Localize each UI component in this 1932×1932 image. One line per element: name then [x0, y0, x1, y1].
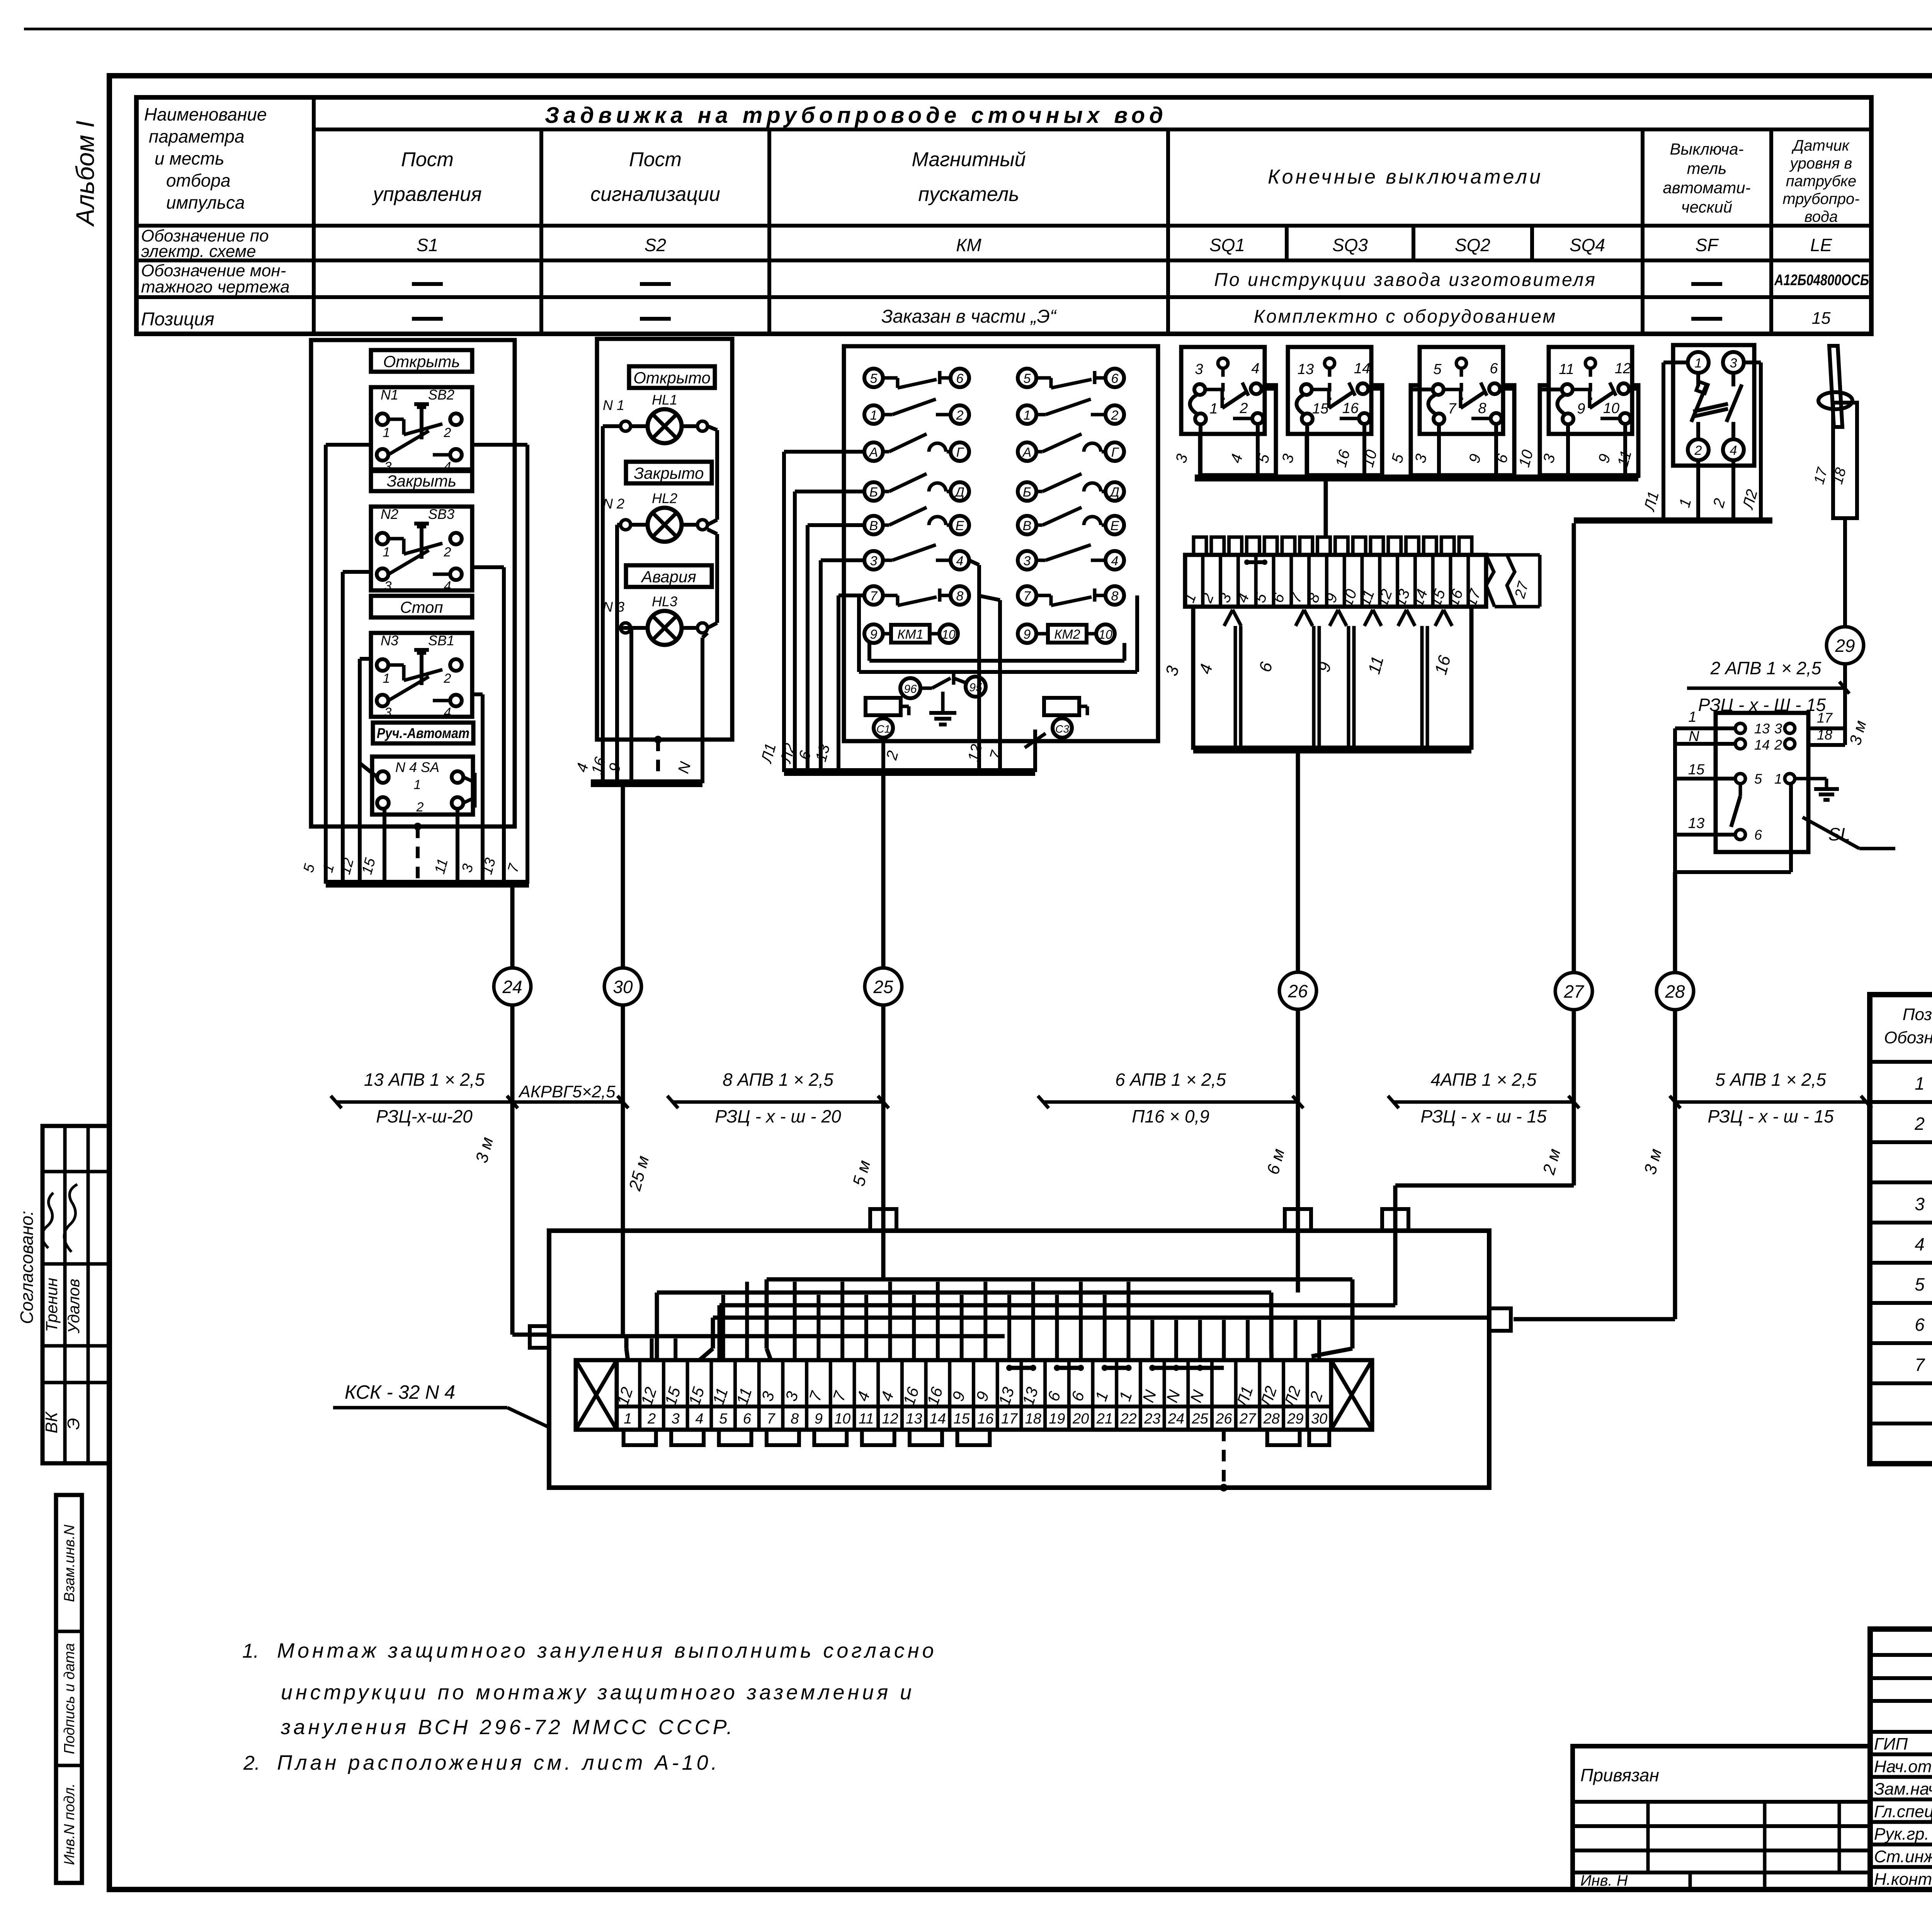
svg-text:1: 1 [1915, 1073, 1925, 1094]
control post enclosure [311, 340, 515, 827]
svg-text:5: 5 [719, 1411, 728, 1427]
svg-text:3: 3 [1024, 554, 1031, 568]
svg-text:12: 12 [1615, 361, 1631, 377]
svg-text:5: 5 [1024, 371, 1031, 386]
SL wire label 18 [1817, 727, 1832, 743]
svg-text:3: 3 [1730, 356, 1737, 371]
limit switch shell SQ2 [1411, 385, 1514, 475]
svg-text:Авария: Авария [640, 568, 696, 586]
LE mounting designation [1774, 272, 1869, 289]
limit switch wire SQ2-2 [1494, 424, 1498, 478]
starter contact В-Е [864, 507, 969, 534]
svg-text:30: 30 [1311, 1411, 1327, 1427]
starter coil circuit 9-KM1-10 [864, 624, 958, 643]
svg-text:10: 10 [1099, 628, 1112, 641]
wire SF to node 27 [1572, 523, 1576, 973]
P16 cable bus [1193, 747, 1471, 753]
svg-text:13: 13 [1754, 721, 1770, 736]
wire label 5 [300, 862, 318, 874]
svg-text:Конечные выключатели: Конечные выключатели [1268, 166, 1543, 188]
wire label 7 [986, 748, 1005, 762]
node 27 [1555, 973, 1592, 1010]
wire 6 starter [808, 525, 864, 772]
svg-text:Датчик: Датчик [1791, 137, 1850, 154]
svg-text:Н.контр.: Н.контр. [1874, 1870, 1932, 1889]
name Trenin [43, 1278, 61, 1332]
svg-text:7: 7 [1448, 401, 1457, 417]
wire from SQ bus to terminal strip [1324, 481, 1328, 537]
svg-text:РЗЦ - х - ш - 15: РЗЦ - х - ш - 15 [1708, 1106, 1834, 1126]
wire label 4 [573, 761, 592, 774]
dash SF mounting [1691, 282, 1722, 286]
row label: Позиция [141, 309, 214, 330]
paper outer border top line [24, 28, 1932, 31]
wire label 4 [1227, 452, 1246, 465]
svg-text:8 АПВ 1 × 2,5: 8 АПВ 1 × 2,5 [723, 1070, 833, 1090]
SL terminal 1 [1774, 771, 1795, 787]
svg-text:2 АПВ 1 × 2,5: 2 АПВ 1 × 2,5 [1710, 658, 1821, 678]
cable label 13APV [331, 1070, 518, 1126]
svg-text:А: А [869, 445, 878, 460]
SF breaker contacts [1691, 373, 1742, 439]
svg-text:1: 1 [1688, 709, 1696, 725]
svg-text:Альбом I: Альбом I [71, 121, 99, 227]
starter contact 5-6 [1018, 369, 1124, 388]
parts row 5 [1915, 1234, 1932, 1254]
svg-text:трубопро-: трубопро- [1782, 190, 1859, 207]
svg-text:24: 24 [1168, 1411, 1184, 1427]
wire SL to node 28 [1673, 872, 1677, 973]
svg-text:электр. схеме: электр. схеме [141, 242, 256, 261]
svg-text:2: 2 [956, 408, 964, 423]
svg-text:Гл.спец.: Гл.спец. [1874, 1802, 1932, 1821]
svg-text:1: 1 [870, 408, 878, 423]
svg-text:патрубке: патрубке [1786, 173, 1857, 190]
svg-text:16: 16 [1342, 400, 1359, 417]
svg-text:1: 1 [383, 671, 390, 686]
KCK entry bump wire26 [1285, 1209, 1311, 1231]
coil terminal C1 [874, 718, 893, 738]
svg-text:S2: S2 [645, 235, 666, 255]
label box Стоп [371, 596, 472, 617]
svg-text:4: 4 [695, 1411, 703, 1427]
LE position 15 [1812, 309, 1831, 328]
designation SF [1696, 235, 1719, 255]
SL ground symbol [1795, 779, 1839, 800]
svg-text:8: 8 [1111, 589, 1119, 604]
svg-text:5: 5 [870, 371, 878, 386]
wire label Л2 [777, 742, 799, 765]
wire label 1 SF [1676, 497, 1694, 509]
SL wire label 15 [1688, 762, 1705, 778]
svg-text:Тренин: Тренин [43, 1278, 61, 1332]
magnetic starter enclosure [844, 346, 1158, 741]
svg-text:Ст.инж.: Ст.инж. [1874, 1847, 1932, 1866]
svg-text:22: 22 [1120, 1411, 1136, 1427]
svg-text:ческий: ческий [1681, 198, 1732, 216]
svg-text:2.: 2. [243, 1752, 260, 1774]
SF cable bus [1574, 517, 1772, 524]
svg-text:уровня в: уровня в [1789, 155, 1852, 172]
svg-text:20: 20 [1072, 1411, 1089, 1427]
svg-text:9: 9 [815, 1411, 823, 1427]
dash S2 position [640, 317, 671, 321]
auxiliary contact 96-95 [900, 672, 986, 698]
svg-text:3: 3 [870, 554, 878, 568]
wire label 3 [1412, 452, 1430, 465]
length label 5m [849, 1158, 874, 1188]
svg-text:8: 8 [1478, 400, 1486, 417]
KCK terminal wire numbers [613, 1384, 1326, 1410]
svg-text:С1: С1 [876, 723, 890, 735]
svg-text:По инструкции завода изгото: По инструкции завода изготовителя [1214, 270, 1597, 290]
svg-text:сигнализации: сигнализации [590, 183, 720, 206]
starter coil circuit 9-KM2-10 [1018, 624, 1115, 643]
svg-text:4АПВ 1 × 2,5: 4АПВ 1 × 2,5 [1431, 1070, 1537, 1090]
P16 group label 9 [1314, 660, 1335, 674]
P16 group label 4 [1196, 662, 1216, 676]
SL terminal 3 [1774, 721, 1795, 736]
KCK wire26 internal [1296, 1231, 1300, 1293]
designation SQ3 [1332, 235, 1368, 255]
label box Руч.-Автомат [373, 723, 473, 743]
P16 group label 11 [1364, 654, 1387, 676]
wire label 7 [505, 861, 523, 874]
wire label N [675, 760, 694, 775]
P16 group label 3 [1162, 664, 1183, 678]
KCK wire27 internal [1393, 1231, 1398, 1305]
side label Vzam inv N [61, 1524, 78, 1602]
label box Закрыть [371, 469, 472, 491]
wire 1 from SB3 pin3 [343, 572, 371, 884]
svg-text:28: 28 [1263, 1411, 1280, 1427]
svg-text:SQ1: SQ1 [1209, 235, 1245, 255]
parts row 6 [1915, 1274, 1932, 1294]
svg-text:6 АПВ 1 × 2,5: 6 АПВ 1 × 2,5 [1115, 1070, 1226, 1090]
wire 16 block2 [617, 525, 621, 783]
svg-text:2: 2 [416, 800, 424, 815]
wire 13 starter [821, 560, 864, 772]
parts table grid [1870, 995, 1932, 1464]
wire label 15 [359, 856, 379, 876]
svg-text:5: 5 [1433, 361, 1442, 378]
svg-text:Пост: Пост [401, 148, 454, 171]
wire label Л1 [758, 742, 779, 765]
SL terminal 6 [1735, 827, 1762, 843]
wire node 25 to KCK [881, 1005, 886, 1231]
node 24 [494, 968, 531, 1005]
node 29 [1827, 627, 1864, 664]
svg-text:HL3: HL3 [652, 594, 677, 609]
dash SF position [1691, 317, 1722, 321]
wire label 11 [432, 857, 451, 876]
svg-text:HL1: HL1 [652, 392, 677, 408]
svg-text:Позиция: Позиция [141, 309, 214, 330]
svg-text:РЗЦ-х-ш-20: РЗЦ-х-ш-20 [376, 1106, 473, 1126]
svg-text:зануления ВСН 296-72 ММСС СС: зануления ВСН 296-72 ММСС СССР. [281, 1716, 735, 1739]
svg-text:Нач.отд.: Нач.отд. [1874, 1757, 1932, 1776]
svg-text:6: 6 [1915, 1315, 1925, 1335]
wire 13 from SB3 pin4 [472, 567, 504, 884]
inv number label [1580, 1872, 1628, 1889]
limit switch SQ3 [1288, 347, 1371, 434]
svg-text:План расположения см. лист: План расположения см. лист А-10. [277, 1751, 720, 1774]
svg-text:N 1: N 1 [603, 397, 624, 413]
svg-text:27: 27 [1239, 1411, 1257, 1427]
wire label 3 [1540, 452, 1558, 465]
node 26 [1279, 972, 1316, 1009]
push button SB1 [371, 633, 472, 720]
svg-text:N3: N3 [381, 633, 398, 648]
header col1 label [144, 104, 267, 213]
svg-text:3: 3 [384, 705, 392, 720]
svg-text:11: 11 [1559, 361, 1574, 378]
starter contact В-Е [1018, 507, 1124, 534]
svg-text:Б: Б [869, 485, 878, 500]
svg-text:1: 1 [383, 545, 390, 560]
svg-text:ГИП: ГИП [1874, 1735, 1908, 1753]
label box Открыто [629, 366, 715, 388]
svg-text:1: 1 [1774, 771, 1782, 787]
designation SQ4 [1570, 235, 1605, 255]
svg-text:13: 13 [1688, 815, 1704, 832]
KCK entry bump right [1489, 1308, 1511, 1331]
designation KM [956, 235, 981, 255]
svg-text:отбора: отбора [166, 170, 231, 190]
svg-text:тажного чертежа: тажного чертежа [141, 277, 290, 296]
wire label 6 [796, 748, 814, 762]
privyazan table [1573, 1746, 1870, 1889]
svg-text:Открыто: Открыто [633, 369, 711, 387]
starter internal link row8 [869, 643, 1124, 661]
svg-text:Инв.N подл.: Инв.N подл. [61, 1783, 78, 1865]
SF wire 1 [1696, 460, 1700, 520]
svg-text:10: 10 [1603, 400, 1619, 417]
svg-text:1: 1 [414, 777, 421, 792]
svg-text:9: 9 [1024, 627, 1031, 642]
SL terminal 5 [1735, 771, 1762, 787]
svg-text:4: 4 [444, 705, 451, 720]
wire label 10 [1359, 448, 1380, 469]
svg-text:18: 18 [1025, 1411, 1041, 1427]
svg-text:2: 2 [1239, 400, 1248, 417]
limit switch SQ4 [1549, 347, 1632, 434]
wire label 12 [964, 742, 985, 763]
KCK jumper 23-26 [1149, 1365, 1224, 1371]
svg-text:25: 25 [873, 977, 893, 997]
wire 12 from SB1 pin1 [360, 659, 377, 884]
svg-text:N 4 SA: N 4 SA [395, 759, 439, 775]
svg-text:пускатель: пускатель [918, 183, 1019, 206]
mounting note: По инструкции завода изготовителя [1214, 270, 1597, 290]
svg-text:Заказан в части „Э“: Заказан в части „Э“ [881, 306, 1057, 327]
svg-text:В: В [869, 519, 878, 533]
starter contact 1-2 [864, 399, 969, 424]
label E [64, 1418, 83, 1430]
designation LE [1810, 235, 1833, 255]
LE label 17 [1811, 465, 1831, 486]
svg-text:КМ2: КМ2 [1054, 627, 1080, 642]
wire label 9 [1466, 452, 1484, 465]
svg-text:2: 2 [1914, 1114, 1925, 1134]
KCK terminal numbers [624, 1411, 1327, 1427]
starter contact 7-8 [864, 586, 969, 605]
SL bottom wire [1675, 784, 1791, 872]
starter contact А-Г [1018, 434, 1124, 461]
KCK harness bus B [657, 1293, 1272, 1360]
wire label 2 SF [1710, 497, 1729, 510]
limit switch wire SQ2-1 [1437, 424, 1441, 478]
P16 lower group cells [1193, 607, 1471, 748]
limit switch shell SQ3 [1307, 385, 1382, 475]
SL wire label 13 [1688, 815, 1704, 832]
title row Н.контр. Янбиндер [1874, 1870, 1932, 1889]
starter contact 3-4 [1018, 545, 1124, 570]
svg-text:N 3: N 3 [603, 599, 624, 615]
wire label Л1 SF [1641, 490, 1662, 514]
terminal box SL [1716, 713, 1808, 852]
limit switch cable bus [1195, 474, 1638, 481]
node 25 [865, 968, 902, 1005]
starter contact Б-Д [1018, 474, 1124, 501]
KCK label leader [333, 1381, 548, 1427]
wire 7 starter [978, 595, 1000, 772]
svg-text:12: 12 [882, 1411, 898, 1427]
P16 group label 16 [1431, 653, 1454, 677]
svg-text:14: 14 [1754, 737, 1770, 753]
starter contact А-Г [864, 434, 969, 461]
row label: Обозначение монтажного чертежа [141, 261, 290, 296]
cable label AKRVG [507, 1082, 628, 1108]
parts row 1 [1915, 1073, 1932, 1094]
svg-text:23: 23 [1144, 1411, 1160, 1427]
title row Гл.спец. Паз [1874, 1802, 1932, 1821]
svg-text:Магнитный: Магнитный [912, 148, 1026, 171]
svg-text:1: 1 [1695, 356, 1702, 371]
name Udalov [65, 1279, 83, 1333]
SQ position: Комплектно с оборудованием [1254, 306, 1557, 327]
limit switch wire SQ4-3 [1629, 389, 1638, 478]
KCK wire25 internal [881, 1231, 886, 1279]
KCK harness bus C [719, 1305, 1395, 1360]
starter contact Б-Д [864, 474, 969, 501]
limit switch SQ1 [1181, 347, 1265, 434]
svg-text:10: 10 [942, 628, 956, 641]
svg-text:Д: Д [954, 485, 964, 500]
svg-text:и месть: и месть [155, 148, 224, 168]
svg-text:18: 18 [1817, 727, 1832, 743]
svg-text:1: 1 [1024, 408, 1031, 423]
wire 9 block2 [621, 628, 631, 783]
svg-text:9: 9 [1577, 401, 1585, 417]
KCK entry bump left [530, 1326, 549, 1348]
designation SQ1 [1209, 235, 1245, 255]
parts row 4 [1915, 1194, 1932, 1214]
svg-text:6: 6 [1111, 371, 1119, 386]
svg-text:вода: вода [1804, 208, 1838, 225]
svg-text:3: 3 [1774, 721, 1782, 736]
privyazan label [1580, 1765, 1659, 1785]
limit switch wire SQ3-0 [1305, 424, 1309, 478]
wire label 3m vertical [1846, 718, 1870, 747]
svg-text:П16 × 0,9: П16 × 0,9 [1132, 1106, 1209, 1126]
SF terminal 3 [1723, 352, 1744, 373]
dashed neutral wire block2 [656, 740, 660, 783]
label box Авария [626, 565, 712, 587]
designation SQ2 [1455, 235, 1490, 255]
svg-text:Стоп: Стоп [400, 598, 443, 616]
KCK wire24 internal [549, 1334, 1005, 1338]
signature scribble left 1 [42, 1193, 53, 1248]
svg-text:SQ4: SQ4 [1570, 235, 1605, 255]
wire from row 7 starter [838, 595, 864, 772]
svg-text:Б: Б [1023, 485, 1031, 500]
wire node 27 to KCK [1395, 1010, 1574, 1231]
wire label 3 [1172, 452, 1191, 465]
svg-text:26: 26 [1215, 1411, 1232, 1427]
wire L2 starter [795, 492, 864, 772]
svg-text:8: 8 [956, 589, 964, 604]
svg-text:Д: Д [1109, 485, 1119, 500]
wire label 12 [337, 856, 357, 876]
label box Закрыто [626, 462, 712, 483]
P16 jumper bar 4-5 [1244, 560, 1267, 565]
svg-text:Э: Э [64, 1418, 83, 1430]
svg-text:4: 4 [1111, 554, 1119, 568]
KCK harness terminal drops [652, 1282, 1320, 1360]
svg-text:13: 13 [1298, 361, 1314, 378]
title row Нач.отд. Гужва [1874, 1757, 1932, 1776]
wire strip to node 26 [1296, 753, 1300, 972]
wire label 5 [1388, 452, 1407, 465]
limit switch wire SQ4-2 [1623, 424, 1627, 478]
LE label 18 [1830, 466, 1850, 486]
svg-text:7: 7 [1024, 589, 1031, 604]
svg-text:КСК - 32 N 4: КСК - 32 N 4 [345, 1381, 455, 1403]
label VK [42, 1411, 61, 1433]
KCK jumper 21-22 [1102, 1365, 1132, 1371]
svg-text:2: 2 [1111, 408, 1119, 423]
svg-text:Е: Е [1111, 519, 1119, 533]
title row Зам.нач. Выборный [1874, 1780, 1932, 1799]
side label Podpis i data [61, 1643, 78, 1754]
parts row 8 [1915, 1355, 1932, 1375]
svg-text:4: 4 [956, 554, 964, 568]
KCK wire28 internal [1445, 1316, 1489, 1320]
svg-text:13 АПВ 1 × 2,5: 13 АПВ 1 × 2,5 [364, 1070, 485, 1090]
soglasovano label [17, 1211, 37, 1324]
wire label 10 [1515, 448, 1536, 469]
svg-text:Пост: Пост [629, 148, 682, 171]
svg-text:3: 3 [1195, 361, 1203, 378]
wire label 13 [479, 856, 499, 876]
svg-text:Г: Г [956, 445, 964, 460]
svg-text:15: 15 [1312, 401, 1329, 417]
designation S1 [417, 235, 438, 255]
wire 15 from SA pin2 [383, 809, 386, 884]
limit switch SQ2 [1420, 347, 1503, 434]
svg-text:Привязан: Привязан [1580, 1765, 1659, 1785]
soglasovano table [43, 1126, 109, 1463]
wire label 5 [1254, 452, 1273, 465]
SL wire label N [1689, 728, 1699, 745]
svg-text:25: 25 [1192, 1411, 1209, 1427]
wire from node 29 to SL [1810, 664, 1845, 745]
svg-text:N: N [1689, 728, 1699, 745]
wire 2 from coil C1 [881, 738, 885, 772]
row label: Обозначение по электр. схеме [141, 226, 269, 261]
svg-text:29: 29 [1835, 636, 1855, 656]
